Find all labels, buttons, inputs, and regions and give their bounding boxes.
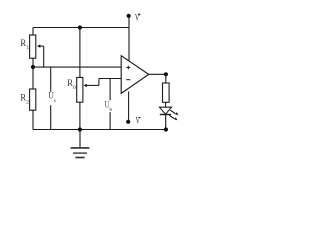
wire bottom rail — [33, 129, 168, 131]
wire R0 bottom to rail — [79, 102, 81, 129]
svg-text:V: V — [136, 116, 141, 126]
wire resistor to LED — [165, 102, 167, 107]
wire left column top — [32, 28, 34, 36]
ground — [71, 130, 90, 158]
node junction R1/R2 — [31, 65, 35, 69]
wire top rail — [33, 27, 129, 29]
node output junction — [164, 72, 168, 76]
svg-text:2: 2 — [26, 100, 29, 106]
resistor R1 (potentiometer) — [20, 35, 35, 58]
wire V- supply stem — [126, 92, 141, 126]
svg-text:b: b — [109, 107, 112, 113]
wiper arrow of R1 — [37, 44, 44, 67]
wire Ub measurement line — [104, 79, 117, 130]
resistor series LED — [163, 83, 170, 102]
wire output to resistor — [165, 74, 167, 83]
wire Us measurement line — [46, 67, 59, 129]
wire noninverting input line — [33, 66, 122, 68]
wire inverting input line — [99, 78, 122, 80]
wire R2 bottom — [32, 110, 34, 129]
wire op-amp output — [149, 73, 166, 75]
wire LED to rail — [164, 115, 168, 132]
svg-text:1: 1 — [26, 45, 29, 51]
wire center column from rail to R0 — [79, 28, 81, 78]
wire R1 bottom to R2 top — [32, 58, 34, 89]
svg-text:s: s — [54, 98, 56, 104]
node junction rail / ground — [78, 127, 82, 131]
node junction top rail / R0 column — [78, 25, 82, 29]
op-amp U1 — [121, 56, 149, 94]
LED D1 — [160, 107, 179, 120]
node V+ terminal — [127, 13, 141, 61]
wiper arrow of R0 — [84, 79, 99, 88]
svg-text:0: 0 — [73, 85, 76, 91]
resistor R0 (potentiometer) — [67, 78, 83, 103]
resistor R2 — [20, 89, 35, 110]
